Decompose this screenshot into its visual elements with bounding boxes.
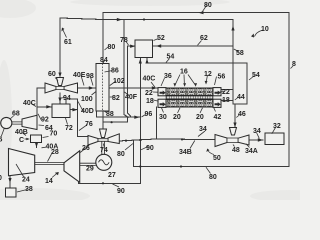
cap right top [213, 88, 221, 96]
svg-text:82: 82 [112, 95, 120, 102]
generator 27 [96, 154, 112, 170]
wire 80 loop top edge [103, 12, 289, 14]
svg-text:34B: 34B [179, 149, 192, 156]
ejector 60 [45, 78, 78, 94]
arrowheads [8, 11, 263, 183]
wire feed to ejector 48 [234, 104, 236, 128]
shaft 29 [80, 163, 96, 165]
leader lines [10, 6, 293, 193]
ejector 48 [215, 128, 249, 147]
svg-text:0: 0 [0, 175, 2, 182]
svg-text:94: 94 [63, 95, 71, 102]
wire 80 loop right edge [288, 13, 290, 167]
svg-text:54: 54 [252, 72, 260, 79]
wire compressor 64 riser [37, 88, 45, 115]
motor 68 [1, 117, 12, 128]
svg-text:18: 18 [146, 98, 154, 105]
wire box 72 right port [70, 109, 78, 111]
svg-text:12: 12 [204, 71, 212, 78]
wire 62 line [153, 45, 234, 47]
svg-text:64: 64 [45, 125, 53, 132]
box 32 [265, 133, 284, 144]
svg-text:72: 72 [65, 125, 73, 132]
wire 80 loop bottom edge [134, 166, 290, 168]
svg-text:36: 36 [164, 73, 172, 80]
svg-text:60: 60 [48, 71, 56, 78]
svg-text:20: 20 [196, 114, 204, 121]
electrolyte layer 20 [166, 96, 213, 99]
svg-text:40C: 40C [143, 76, 156, 83]
svg-text:34A: 34A [245, 148, 258, 155]
box 52 combustor [135, 40, 153, 58]
svg-text:96: 96 [145, 111, 153, 118]
svg-text:62: 62 [200, 35, 208, 42]
svg-text:38: 38 [25, 186, 33, 193]
wire 40C branch into box 72 [37, 106, 52, 108]
fuel cell stack 12 : top bar 22 [158, 88, 221, 108]
wire compressor 24 air inlet from 38 [9, 176, 11, 188]
wire 58 vertical [232, 20, 234, 101]
wire 78 from box 52 down [128, 46, 135, 117]
wire 94 ejector to box 72 [59, 93, 61, 103]
svg-text:42: 42 [214, 114, 222, 121]
compressor 64 [22, 115, 37, 129]
svg-text:90: 90 [117, 188, 125, 195]
wire duct into recuperator top [102, 13, 104, 64]
svg-text:40A: 40A [46, 144, 59, 151]
wire box 72 top out to 40D corner [66, 99, 88, 136]
turbine 74 ejector assembly [88, 129, 119, 145]
wire 90 main vertical [79, 58, 141, 184]
svg-text:30: 30 [159, 114, 167, 121]
small leader arrowheads [26, 28, 254, 176]
svg-text:54: 54 [167, 54, 175, 61]
svg-text:50: 50 [213, 155, 221, 162]
bottom bar 18 [166, 100, 213, 108]
svg-text:88: 88 [106, 111, 114, 118]
cap left top [158, 88, 166, 96]
svg-text:34: 34 [253, 128, 261, 135]
wire turbine 26 exhaust [78, 181, 80, 183]
svg-text:40D: 40D [81, 108, 94, 115]
svg-text:76: 76 [85, 121, 93, 128]
shaft motor 68 to compressor 64 [12, 122, 22, 124]
wire box 70 to compressor 24 [36, 143, 38, 148]
svg-text:74: 74 [100, 147, 108, 154]
wire ejector 60 outlet to recuperator 40E [78, 87, 97, 89]
wire recuperator bypass branch [103, 117, 128, 122]
cap arrows [160, 91, 221, 107]
svg-text:C: C [19, 137, 24, 144]
junction dots [102, 18, 183, 184]
svg-text:8: 8 [292, 61, 296, 68]
svg-text:80: 80 [108, 44, 116, 51]
wire anode out y100 [221, 99, 233, 101]
svg-text:86: 86 [111, 68, 119, 75]
wire recuperator to stack 40F [109, 87, 158, 89]
svg-text:24: 24 [22, 177, 30, 184]
box 70 [31, 135, 42, 142]
wire stack bottom left down [156, 107, 158, 139]
wire 54 right riser [233, 63, 247, 104]
svg-text:27: 27 [108, 172, 116, 179]
svg-text:52: 52 [157, 35, 165, 42]
svg-text:10: 10 [261, 26, 269, 33]
svg-text:80: 80 [117, 151, 125, 158]
svg-text:44: 44 [237, 94, 245, 101]
svg-text:58: 58 [236, 50, 244, 57]
cap left bottom [158, 99, 166, 107]
svg-text:80: 80 [209, 174, 217, 181]
wire 54 line from box 52 [147, 58, 247, 63]
svg-text:46: 46 [238, 111, 246, 118]
wire 61 line horizontal [60, 18, 233, 20]
svg-text:40F: 40F [125, 94, 138, 101]
svg-text:102: 102 [113, 78, 125, 85]
recuperator 84 [96, 64, 109, 112]
cap right bottom [213, 99, 221, 107]
svg-text:20: 20 [173, 114, 181, 121]
wire 61 vertical to ejector 60 [59, 18, 61, 76]
svg-text:14: 14 [45, 178, 53, 185]
svg-text:100: 100 [81, 96, 93, 103]
svg-text:22: 22 [145, 90, 153, 97]
16 fan arrows [175, 75, 208, 86]
svg-text:29: 29 [86, 166, 94, 173]
svg-text:34: 34 [199, 126, 207, 133]
box 72 fuel heater [52, 104, 70, 117]
svg-text:56: 56 [218, 74, 226, 81]
shaft 28 [35, 163, 64, 165]
svg-text:84: 84 [100, 57, 108, 64]
svg-text:78: 78 [120, 37, 128, 44]
svg-text:22: 22 [222, 89, 230, 96]
svg-text:26: 26 [82, 145, 90, 152]
svg-text:40C: 40C [23, 100, 36, 107]
shaft turbine 74 to generator 27 [102, 142, 105, 155]
compressor 24 [9, 149, 35, 176]
wire from 61-line down x124 [124, 20, 128, 118]
wire recuperator bottom to turbine 74 [102, 111, 104, 129]
svg-text:61: 61 [64, 39, 72, 46]
motor 68 leader 6 [1, 129, 4, 137]
box 38 [6, 188, 17, 197]
wire 80 loop left riser [133, 141, 135, 167]
svg-text:18: 18 [222, 97, 230, 104]
svg-text:68: 68 [12, 111, 20, 118]
svg-text:92: 92 [41, 117, 49, 124]
svg-text:40B: 40B [15, 129, 28, 136]
wire 96 from recuperator [96, 111, 139, 117]
svg-text:40E: 40E [73, 72, 86, 79]
svg-text:90: 90 [146, 145, 154, 152]
svg-text:6: 6 [0, 137, 3, 144]
svg-text:80: 80 [204, 2, 212, 9]
wire cathode out top y89 [221, 88, 233, 90]
wire 34B turbine 74 exhaust line [120, 139, 216, 141]
svg-text:32: 32 [273, 123, 281, 130]
svg-text:48: 48 [232, 147, 240, 154]
turbine 26 [64, 151, 80, 183]
svg-text:16: 16 [180, 69, 188, 76]
svg-text:98: 98 [86, 73, 94, 80]
wire ejector 48 outlet to box 32 [249, 139, 263, 141]
